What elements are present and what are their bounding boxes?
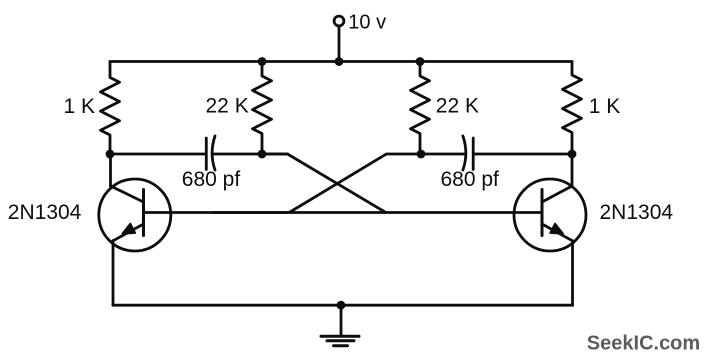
svg-text:SeekIC.com: SeekIC.com [587,333,700,355]
svg-text:1 K: 1 K [64,95,96,118]
svg-text:22 K: 22 K [436,95,479,118]
svg-text:2N1304: 2N1304 [8,201,82,224]
svg-text:680 pf: 680 pf [441,168,500,191]
svg-text:680 pf: 680 pf [182,168,241,191]
svg-text:2N1304: 2N1304 [600,201,674,224]
svg-text:1 K: 1 K [589,95,621,118]
svg-text:10 v: 10 v [348,12,386,34]
svg-text:22 K: 22 K [206,95,249,118]
